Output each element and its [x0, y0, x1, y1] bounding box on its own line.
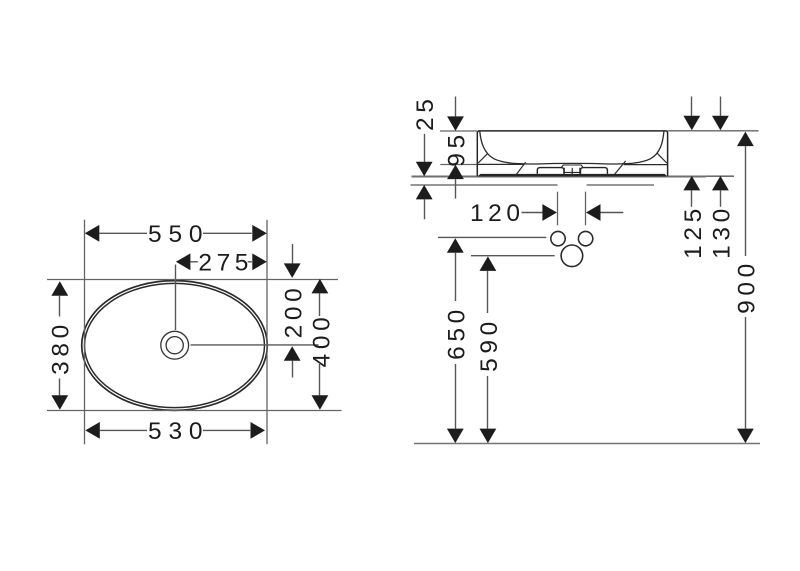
dim 550 left arrow [85, 225, 100, 242]
dim 275 left arrow [176, 253, 191, 270]
extension line basin inner bottom [440, 164, 478, 166]
dim 120 left-pointing arrow [586, 204, 601, 221]
floor line [414, 443, 760, 445]
svg-text:25: 25 [412, 95, 439, 131]
washbasin top view: outer rim ellipse [82, 281, 268, 411]
dim 400 lower line [319, 364, 321, 395]
shelf top surface line [412, 176, 706, 178]
drain inner circle [166, 337, 183, 354]
right extension line of top view [266, 220, 268, 444]
dim 120 leader right [601, 212, 624, 214]
dim 550 right line [203, 232, 252, 234]
dim 650 bottom arrow [447, 429, 464, 444]
dim 25 top arrow [416, 162, 433, 177]
dim 900 upper line [745, 146, 747, 256]
washbasin top view: inner rim ellipse [85, 283, 265, 407]
dim 95 bottom arrow [447, 165, 464, 180]
left extension line of top view [84, 220, 86, 444]
dim 275 left line [190, 261, 197, 263]
dim 125 top arrow [683, 116, 700, 131]
dim 200 top arrow [284, 263, 301, 278]
dim 900 lower line [745, 317, 747, 429]
wall outlet small circle left [551, 231, 565, 245]
extension line at ellipse bottom [47, 410, 342, 412]
dim 900 top arrow [737, 132, 754, 147]
shelf bottom line left segment [411, 184, 558, 186]
dim 900 bottom arrow [737, 429, 754, 444]
dim 120 leader left [522, 212, 543, 214]
basin foot right [581, 168, 608, 174]
basin side view: inner bowl curve left [480, 132, 537, 165]
leader line from drain centre to right [191, 344, 319, 346]
dim 200 bottom arrow [284, 346, 301, 361]
dim 380 upper line [59, 296, 61, 317]
reference line at 650 height [438, 236, 546, 238]
basin side view: inner bowl curve right [609, 132, 664, 165]
dim 120 extension line left [557, 192, 559, 226]
extension line basin top left [440, 130, 477, 132]
svg-text:120: 120 [470, 200, 525, 227]
dim 590 bottom arrow [480, 429, 497, 444]
svg-text:275: 275 [198, 250, 253, 277]
dim 380 bottom arrow [51, 395, 68, 410]
dim 530 right arrow [251, 422, 266, 439]
centre leader line from 275 dim to drain [175, 265, 177, 331]
basin side view: outer outline [477, 131, 667, 176]
svg-text:650: 650 [443, 305, 470, 360]
extension line basin top right [668, 130, 759, 132]
dim 130 top arrow [712, 116, 729, 131]
svg-text:590: 590 [476, 317, 503, 372]
drain centre line [571, 168, 573, 176]
dim 120 right-pointing arrow [542, 204, 557, 221]
dim 125 bottom arrow [683, 176, 700, 191]
extension line at ellipse top [47, 279, 338, 281]
inner bottom flat line right [624, 164, 668, 166]
dim 550 right arrow [252, 225, 266, 242]
dim 590 top arrow [480, 256, 497, 271]
dim 650 upper line [455, 253, 457, 301]
drain block between feet [564, 168, 580, 174]
pedestal edge diagonal left [516, 162, 525, 174]
shelf bottom line right segment [587, 184, 654, 186]
dim 400 top arrow [312, 279, 329, 294]
dim 95 lower line [455, 179, 457, 199]
dim 530 right line [203, 429, 250, 431]
bowl lowest band above drain [561, 165, 583, 168]
dim 380 lower line [59, 379, 61, 396]
dim 275 right arrow [252, 253, 266, 270]
basin side view: bowl bottom silhouette [537, 162, 609, 165]
reference line at 590 height [471, 255, 555, 257]
wall outlet small circle right [578, 231, 592, 245]
dim 120 extension line right [585, 192, 587, 226]
svg-text:200: 200 [280, 284, 307, 339]
dim 650 lower line [455, 364, 457, 429]
svg-text:130: 130 [708, 204, 735, 259]
dim 25 lower line [424, 199, 426, 219]
dim 590 lower line [487, 376, 489, 429]
dim 530 left line [100, 429, 147, 431]
dim 275 right line [248, 261, 252, 263]
rim wedge line left [478, 153, 488, 163]
dim 125 lower line [691, 190, 693, 206]
dim 590 upper line [487, 271, 489, 313]
dim 130 lower line [720, 190, 722, 206]
svg-text:380: 380 [48, 320, 75, 375]
dim 95 top arrow [447, 116, 464, 130]
drain outer circle [161, 331, 189, 359]
dim 25 bottom arrow [416, 185, 433, 200]
dim 130 bottom arrow [712, 176, 729, 191]
dim 400 bottom arrow [312, 395, 329, 410]
wall outlet big circle [561, 245, 583, 267]
basin side view: bottom edge band [478, 174, 668, 177]
dim 530 left arrow [85, 422, 100, 439]
svg-text:530: 530 [148, 418, 209, 445]
dim 400 upper line [319, 293, 321, 316]
dim 130 upper line [720, 97, 722, 116]
basin foot left [537, 168, 564, 174]
dim 95 upper line [455, 97, 457, 117]
svg-text:900: 900 [733, 259, 760, 314]
shelf top line right segment [706, 175, 734, 177]
dim 650 top arrow [447, 238, 464, 253]
inner bottom flat line left [478, 163, 525, 165]
dim 380 top arrow [51, 281, 68, 296]
rim wedge line right [657, 153, 667, 163]
svg-text:550: 550 [148, 221, 209, 248]
svg-text:95: 95 [444, 130, 471, 166]
svg-text:125: 125 [680, 204, 707, 259]
dim 550 left line [99, 232, 147, 234]
dim 200 lower line [292, 361, 294, 378]
dim 200 upper line [292, 244, 294, 263]
svg-text:400: 400 [308, 313, 335, 368]
dim 125 upper line [691, 97, 693, 116]
dim 25 upper line [424, 134, 426, 162]
pedestal edge diagonal right [614, 161, 625, 175]
